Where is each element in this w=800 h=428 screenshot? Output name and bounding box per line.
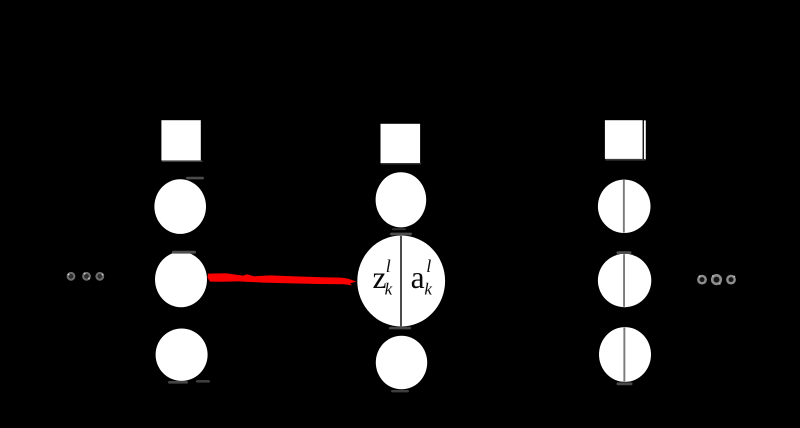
ellipsis dots right (output side) xyxy=(698,275,735,285)
neuron N1 (layer l-1, top) xyxy=(154,177,206,234)
neuron M1 (layer l, top) xyxy=(376,172,427,230)
neuron N3 (layer l-1, bottom) xyxy=(156,329,210,384)
neuron N2 (layer l-1, middle, source of red arrow) xyxy=(155,251,207,307)
divider line inside big neuron xyxy=(400,236,401,326)
label z_k^l xyxy=(373,256,393,298)
bias square B1 (layer l-1) xyxy=(161,120,202,162)
bias square B2 (layer l) xyxy=(381,124,422,165)
label a_k^l xyxy=(411,256,433,298)
ellipsis dots left (input side) xyxy=(68,273,104,280)
neuron P3 (layer l+1, bottom) with divider xyxy=(599,327,651,385)
neuron P1 (layer l+1, top) with divider xyxy=(598,180,651,233)
bias square B3 (layer l+1) xyxy=(605,120,646,160)
svg-text:k: k xyxy=(424,280,432,299)
svg-text:a: a xyxy=(411,260,425,295)
red arrow (highlighted weight w from N2 to big neuron) xyxy=(208,273,357,285)
neuron P2 (layer l+1, middle) with divider xyxy=(598,251,651,307)
big neuron z_k / a_k (layer l, expanded) xyxy=(357,233,445,330)
svg-text:l: l xyxy=(426,256,431,276)
neuron M3 (layer l, bottom) xyxy=(376,336,427,393)
svg-text:l: l xyxy=(386,256,391,276)
svg-text:k: k xyxy=(385,280,393,299)
